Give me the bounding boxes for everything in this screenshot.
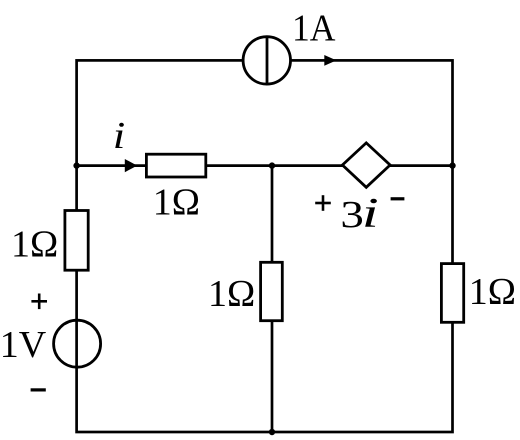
svg-text:1Ω: 1Ω [153,182,200,224]
svg-text:3: 3 [340,194,364,236]
svg-text:1Ω: 1Ω [11,223,58,265]
svg-text:i: i [362,191,379,237]
svg-text:1A: 1A [292,8,336,50]
svg-text:1V: 1V [0,324,47,366]
svg-text:i: i [113,115,126,157]
svg-text:1Ω: 1Ω [469,271,516,313]
svg-text:1Ω: 1Ω [208,273,255,315]
